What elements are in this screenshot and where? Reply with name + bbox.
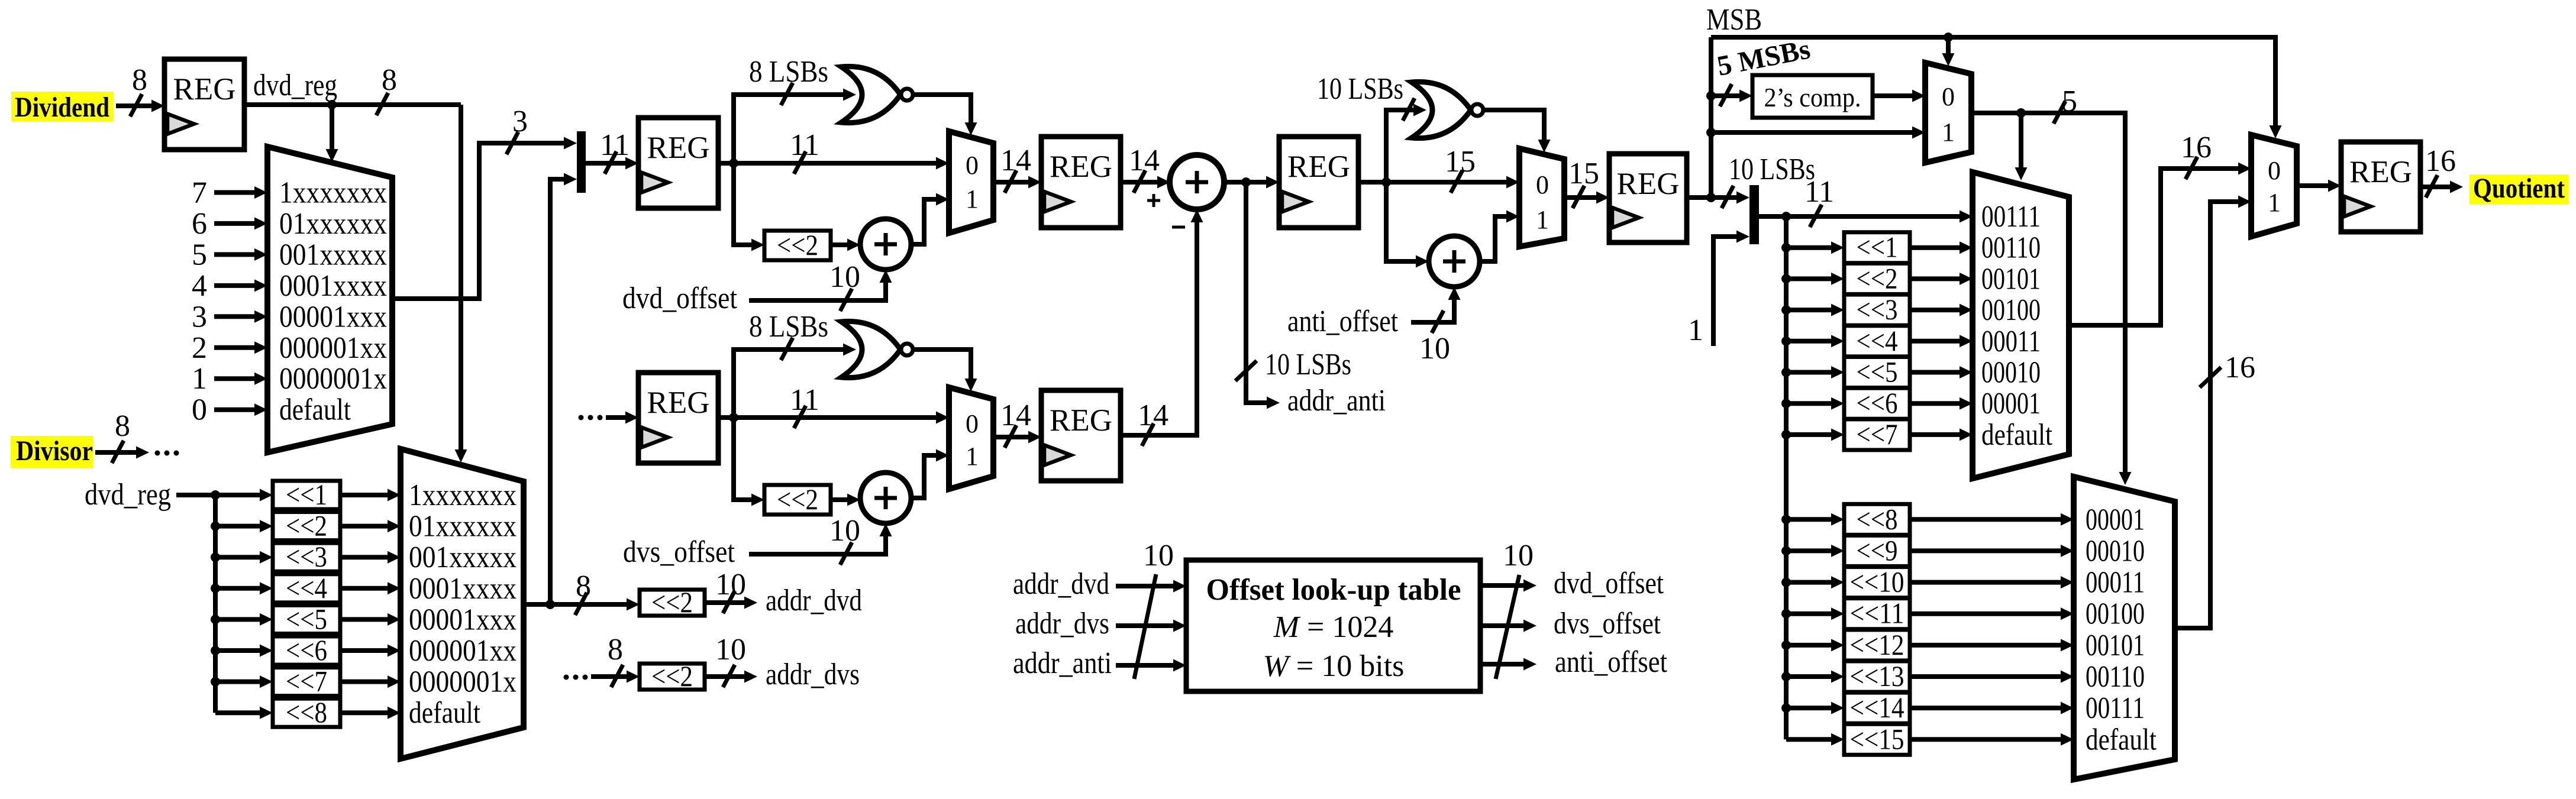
shifter &lt;&lt;2 [640,585,705,619]
svg-text:0001xxxx: 0001xxxx [279,269,387,303]
shifter &lt;&lt;4 [273,571,340,604]
wire shifter <<6 to mux M8 [1910,401,1960,406]
wire adder A3 to mux M4 input 1 [1480,216,1506,261]
svg-text:anti_offset: anti_offset [1287,305,1398,338]
svg-text:dvs_offset: dvs_offset [623,535,735,569]
wire constant 4 into mux M1 [214,283,254,288]
svg-text:REG: REG [1617,167,1680,201]
shifter &lt;&lt;2 [273,509,340,542]
wire anti_offset out of LUT [1480,662,1523,667]
wire REG8 output to Quotient [2420,185,2450,189]
wire mux M5 output to REG6 [993,435,1028,439]
svg-text:10 LSBs: 10 LSBs [1729,153,1815,186]
wire feeder to shifter <<8 (quotient) [1786,517,1831,522]
shifter &lt;&lt;13 [1844,659,1910,693]
output label Quotient [2470,173,2568,204]
svg-text:00110: 00110 [1981,231,2041,265]
svg-text:<<7: <<7 [1857,418,1898,451]
shifter &lt;&lt;14 [1844,691,1910,724]
wire shifter <<1 to mux M2 [340,493,388,497]
svg-text:0: 0 [1536,170,1549,199]
svg-text:001xxxxx: 001xxxxx [279,238,387,271]
svg-text:Quotient: Quotient [2473,173,2565,204]
bus width slash 15 (M4 out) [1573,186,1584,208]
shifter &lt;&lt;2 [1844,261,1910,295]
svg-text:1: 1 [1688,313,1703,347]
svg-text:14: 14 [1129,144,1160,177]
svg-text:<<5: <<5 [286,602,327,635]
node dvd_reg junction [327,100,337,109]
wire direct to mux M6 input 1 [1711,130,1912,135]
svg-text:default: default [1981,418,2052,452]
svg-text:1: 1 [966,442,979,471]
svg-text:0: 0 [1942,82,1955,111]
mux M6 (0/1) [1925,63,1971,163]
bus width slash 10 LSBs (addr_anti) [1235,361,1257,381]
wire shifter <<2 to mux M8 [1910,276,1960,281]
wire feeder to shifter <<14 (quotient) [1786,706,1831,710]
wire feeder to shifter <<2 (quotient) [1786,276,1831,281]
wire feeder to shifter <<5 (quotient) [1786,370,1831,375]
wire feeder to shifter <<6 (quotient) [1786,401,1831,406]
svg-text:1: 1 [1536,205,1549,234]
wire shifter <<7 to mux M2 [340,680,388,684]
wire feeder to shifter <<6 [215,648,260,653]
shifter &lt;&lt;3 [273,540,340,573]
svg-text:16: 16 [2425,144,2456,178]
svg-text:00100: 00100 [2086,597,2145,631]
wire shifter <<14 to mux M9 [1910,706,2061,710]
operand sign minus (subtractor) [1172,226,1185,229]
svg-text:dvd_reg: dvd_reg [85,478,171,512]
wire shifter to adder A1 [831,242,847,247]
svg-text:anti_offset: anti_offset [1555,645,1667,679]
svg-text:11: 11 [1805,175,1834,209]
bus width slash 10 LSBs (N3) [1403,98,1415,121]
svg-text:REG: REG [647,386,710,420]
svg-text:addr_anti: addr_anti [1013,646,1112,680]
bus width slash 8 (addr_dvs) [611,665,623,687]
wire constant 3 into mux M1 [214,314,254,319]
register R7 [1609,154,1687,242]
wire NOR N2 output to mux M5 select [913,350,971,379]
bus width slash 5 MSBs [1720,84,1732,106]
register R4 [1041,137,1121,228]
wire dvd_reg select drop into mux M1 [330,105,334,149]
wire mux M4 output to REG7 [1564,195,1596,200]
svg-text:<<2: <<2 [286,509,327,542]
input label Divisor [11,435,93,468]
wire feeder to shifter <<11 (quotient) [1786,612,1831,616]
svg-text:<<6: <<6 [286,633,327,667]
svg-text:14: 14 [1138,399,1168,432]
shifter &lt;&lt;8 [1844,502,1910,535]
node feeder junction <<11 (quotient) [1781,609,1791,619]
svg-text:<<1: <<1 [286,478,327,511]
svg-text:00101: 00101 [2086,629,2145,662]
svg-text:default: default [2086,723,2157,756]
svg-text:8: 8 [115,409,130,443]
wire feeder to shifter <<10 (quotient) [1786,580,1831,585]
shifter &lt;&lt;3 [1844,293,1910,326]
svg-text:REG: REG [647,131,710,165]
bus width slash 10 (LUT outputs) [1496,575,1519,679]
node shift-column feed junction [211,490,220,500]
mux M9 trapezoid (lower quotient mux) [2074,477,2175,779]
wire 2s-comp to mux M6 input 0 [1873,93,1912,98]
wire REG3 out down to shifter [734,418,751,500]
wire constant 1 into mux M1 [214,376,254,381]
svg-text:REG: REG [2349,155,2412,189]
wire NOR N3 output to mux M4 select [1483,110,1544,140]
node feeder junction <<2 (quotient) [1781,274,1791,283]
svg-text:default: default [409,696,480,730]
svg-text:10 LSBs: 10 LSBs [1317,72,1403,106]
svg-text:7: 7 [192,176,207,210]
svg-text:01xxxxxx: 01xxxxxx [279,207,387,241]
svg-text:000001xx: 000001xx [279,331,387,365]
wire shifter <<7 to mux M8 [1910,432,1960,437]
svg-text:16: 16 [2225,351,2255,384]
bus width slash 11 (into REG2) [605,151,616,174]
wire shifter <<5 to mux M8 [1910,370,1960,375]
wire addr_anti drop [1246,182,1267,403]
svg-text:00101: 00101 [1981,262,2041,296]
bus merge bar B2 [1749,185,1759,244]
svg-text:<<13: <<13 [1850,659,1904,693]
wire bus merge B2 output to mux M8 [1759,214,1960,219]
bus width slash 5 (M6 out) [2054,101,2065,124]
wire REG6 out up into subtractor [1121,222,1197,435]
ellipsis before REG3 [579,415,584,420]
node B2 output junction [1781,212,1791,221]
bus width slash 10 (addr_dvs) [723,665,735,687]
bus width slash 14 (M3 out) [1005,170,1016,193]
operand sign + (subtractor) [1153,194,1155,207]
svg-text:11: 11 [790,383,819,417]
shifter &lt;&lt;12 [1844,628,1910,661]
wire constant 5 into mux M1 [214,252,254,257]
svg-text:REG: REG [1287,150,1350,184]
node feeder junction <<4 [211,584,220,593]
svg-text:1: 1 [192,362,207,396]
svg-text:10: 10 [1143,539,1174,572]
node REG3 output junction [729,413,738,422]
bus width slash 10 (dvs_offset) [840,542,852,565]
shifter &lt;&lt;8 [273,696,340,729]
wire shifter <<10 to mux M9 [1910,580,2061,585]
svg-text:<<14: <<14 [1850,691,1904,724]
wire REG2 out down to shifter [734,163,751,245]
wire dvd_offset out of LUT [1480,583,1523,588]
bus width slash 10 (addr_dvd) [723,591,735,613]
svg-text:<<8: <<8 [1857,502,1898,535]
svg-text:2’s comp.: 2’s comp. [1764,82,1861,112]
node subtractor output junction [1241,177,1251,187]
svg-text:addr_dvs: addr_dvs [766,658,860,691]
wire adder A2 to mux M5 input 1 [911,455,936,498]
svg-text:<<7: <<7 [286,665,327,698]
svg-text:<<2: <<2 [651,659,693,693]
wire shifter <<9 to mux M9 [1910,548,2061,553]
adder A3 [1429,236,1480,287]
svg-text:0: 0 [966,151,979,180]
bus width slash 11 (B2 out) [1810,205,1822,227]
bus width slash 16 (M9 out) [2200,367,2221,387]
svg-text:Offset look-up table: Offset look-up table [1206,573,1461,607]
wire into addr_dvs shifter [591,674,627,679]
adder A1 [860,219,911,270]
svg-text:5: 5 [192,238,207,271]
svg-text:11: 11 [790,128,819,162]
svg-text:001xxxxx: 001xxxxx [409,541,517,574]
wire shift-column feeder vertical [213,495,218,713]
svg-text:<<2: <<2 [777,483,818,516]
block Offset look-up table [1186,560,1480,691]
bus merge bar B1 [577,131,586,193]
svg-text:0: 0 [2268,156,2281,185]
wire shifter <<11 to mux M9 [1910,612,2061,616]
wire shifter <<4 to mux M2 [340,586,388,591]
NOR gate N2 [841,321,913,377]
svg-text:8: 8 [608,633,623,667]
wire feeder to shifter <<7 [215,680,260,684]
svg-text:0: 0 [192,393,207,427]
node feeder junction <<4 (quotient) [1781,337,1791,346]
shifter &lt;&lt;1 [273,478,340,511]
svg-text:dvd_reg: dvd_reg [253,69,337,102]
node feeder junction <<3 (quotient) [1781,305,1791,315]
mux M5 (0/1) [949,387,993,489]
svg-text:addr_dvs: addr_dvs [1015,607,1109,641]
svg-text:00111: 00111 [2086,691,2145,725]
register R6 [1041,390,1121,481]
wire shifter <<1 to mux M8 [1910,245,1960,250]
wire quotient shift feeder vertical [1784,216,1789,739]
svg-text:dvd_offset: dvd_offset [622,282,737,315]
svg-text:00001xxx: 00001xxx [279,300,387,334]
shifter &lt;&lt;2 [764,228,831,261]
shifter &lt;&lt;6 [273,633,340,667]
svg-text:<<4: <<4 [1857,324,1898,357]
ellipsis after Divisor [155,451,160,456]
bus width slash 8 LSBs (N2) [781,338,793,360]
wire into REG3 [606,415,625,420]
wire REG3 out up to NOR N2 [734,350,843,418]
svg-text:1: 1 [1942,118,1955,147]
shifter &lt;&lt;9 [1844,533,1910,567]
svg-text:2: 2 [192,331,207,365]
bus width slash 16 (Quotient) [2426,175,2438,198]
svg-text:addr_dvd: addr_dvd [766,584,862,617]
wire feeder to shifter <<4 (quotient) [1786,339,1831,344]
mux M3 (0/1) [949,131,993,233]
svg-text:8 LSBs: 8 LSBs [749,55,828,89]
wire constant 6 into mux M1 [214,221,254,226]
svg-text:3: 3 [512,105,528,138]
wire dvd_offset into adder A1 [749,283,886,300]
node feeder junction <<10 (quotient) [1781,578,1791,587]
node feeder junction <<3 [211,552,220,562]
svg-text:<<9: <<9 [1857,533,1898,567]
wire shifter <<8 to mux M9 [1910,517,2061,522]
svg-text:<<6: <<6 [1857,386,1898,419]
svg-text:00011: 00011 [1981,325,2041,358]
bus width slash 10 (LUT inputs) [1134,574,1156,679]
svg-text:8: 8 [382,63,397,97]
mux M2 divisor-normalize trapezoid placed under labels [401,449,524,759]
node feeder junction <<6 [211,646,220,655]
wire shifter <<5 to mux M2 [340,617,388,622]
wire constant 7 into mux M1 [214,190,254,195]
svg-text:01xxxxxx: 01xxxxxx [409,510,517,544]
shifter &lt;&lt;5 [1844,355,1910,389]
wire feeder to shifter <<4 [215,586,260,591]
node feeder junction <<5 [211,614,220,624]
wire anti_offset into adder A3 [1411,300,1454,322]
shifter &lt;&lt;11 [1844,597,1910,630]
svg-text:1xxxxxxx: 1xxxxxxx [409,478,517,512]
shifter &lt;&lt;15 [1844,722,1910,755]
wire adder A1 to mux M3 input 1 [911,199,936,244]
wire mux M8 output to mux M7 input 0 [2069,169,2238,325]
input label Dividend [11,92,114,123]
bus width slash 16 (M8 out) [2186,157,2197,179]
node mux M6 input-1 branch junction [1706,128,1716,137]
bus width slash 14 (REG4 out) [1134,170,1145,193]
svg-text:6: 6 [192,207,207,241]
register R2 [638,118,718,208]
svg-text:<<3: <<3 [1857,293,1898,326]
wire divisor index riser to bus merge [550,179,564,604]
svg-text:00001xxx: 00001xxx [409,603,517,636]
node feeder junction <<14 (quotient) [1781,703,1791,713]
wire feeder to shifter <<3 (quotient) [1786,308,1831,312]
svg-text:15: 15 [1568,157,1599,190]
node 5 MSBs branch junction [1706,91,1716,101]
wire to addr_dvd [705,600,744,605]
bus width slash 10 (anti_offset) [1432,310,1444,333]
wire REG5 out up to NOR N3 [1386,110,1413,182]
svg-text:<<8: <<8 [286,696,327,729]
svg-text:10: 10 [1419,332,1450,365]
node feeder junction <<2 [211,522,220,531]
wire feeder to shifter <<1 (quotient) [1786,245,1831,250]
shifter &lt;&lt;7 [1844,418,1910,451]
wire Divisor stub [95,450,136,455]
bus width slash 10 (dvd_offset) [840,289,852,311]
svg-text:00111: 00111 [1981,200,2041,234]
node feeder junction <<5 (quotient) [1781,368,1791,377]
wire dvd_reg select drop into mux M2 [459,105,463,449]
svg-text:<<2: <<2 [1857,261,1898,295]
wire MSB riser [1709,37,1713,198]
wire select drop into mux M8 [2019,113,2023,167]
node REG7 output junction [1706,193,1716,202]
svg-text:00110: 00110 [2086,660,2145,694]
wire mux M6 output (5-bit) [1971,113,2125,472]
node M6 output junction [2016,108,2026,118]
node feeder junction <<12 (quotient) [1781,641,1791,650]
wire REG7 output to bus merge B2 [1687,195,1736,200]
svg-text:<<2: <<2 [651,585,693,619]
constant 1 into bus merge B2 [1713,237,1736,346]
wire REG5 out down to adder A3 [1386,182,1416,261]
svg-text:W = 10 bits: W = 10 bits [1263,649,1405,683]
bus width slash 8 (addr_dvd path) [575,593,587,615]
wire shifter <<12 to mux M9 [1910,643,2061,648]
wire feeder to shifter <<12 (quotient) [1786,643,1831,648]
svg-text:3: 3 [192,300,207,334]
svg-text:addr_anti: addr_anti [1287,384,1386,418]
node feeder junction <<1 (quotient) [1781,243,1791,253]
wire Dividend to REG1 [116,103,151,108]
register R3 [638,373,718,463]
wire REG4 to subtractor [1121,180,1157,185]
node feeder junction <<6 (quotient) [1781,399,1791,408]
svg-text:<<10: <<10 [1850,565,1904,599]
svg-text:REG: REG [173,72,236,106]
wire dvd_reg [244,102,461,107]
wire REG3 output to mux M5 input 0 [718,415,936,420]
wire shifter <<8 to mux M2 [340,710,388,715]
svg-text:1: 1 [2268,188,2281,217]
svg-text:000001xx: 000001xx [409,634,517,668]
wire shifter <<6 to mux M2 [340,648,388,653]
svg-text:00001: 00001 [2086,503,2145,536]
svg-text:0: 0 [966,409,979,438]
wire subtractor out to REG5 [1224,180,1266,185]
svg-text:dvs_offset: dvs_offset [1554,607,1661,641]
block 2s complement [1752,75,1873,118]
svg-text:5: 5 [2062,85,2077,118]
node mux M2 output junction [545,600,555,609]
wire bar B1 to REG2 [586,161,625,166]
node feeder junction <<7 [211,677,220,687]
wire shifter <<15 to mux M9 [1910,737,2061,742]
svg-text:10: 10 [829,260,860,294]
svg-text:10: 10 [829,514,860,548]
svg-text:00011: 00011 [2086,566,2145,600]
mux M1 priority encoder trapezoid [267,147,392,452]
shifter &lt;&lt;5 [273,602,340,635]
node feeder junction <<13 (quotient) [1781,672,1791,681]
bus width slash 3 [506,132,518,154]
svg-text:00010: 00010 [2086,534,2145,568]
wire mux M9 output to mux M7 input 1 [2175,202,2238,628]
svg-text:<<3: <<3 [286,540,327,573]
wire addr_dvs into LUT [1116,623,1173,628]
svg-text:14: 14 [1000,399,1031,432]
node feeder junction <<7 (quotient) [1781,430,1791,439]
svg-text:8: 8 [132,63,147,97]
wire MSB down to mux M6 select [1946,37,1951,53]
svg-text:00100: 00100 [1981,293,2041,327]
shifter &lt;&lt;7 [273,665,340,698]
bus width slash 15 (REG5 out) [1451,170,1463,193]
bus width slash 10 LSBs (into B2) [1722,186,1734,208]
shifter &lt;&lt;6 [1844,386,1910,419]
mux M8 trapezoid (upper quotient mux) [1973,172,2069,478]
shifter &lt;&lt;10 [1844,565,1910,599]
wire shifter to adder A2 [831,497,847,502]
wire dvs_offset out of LUT [1480,623,1523,628]
wire constant 2 into mux M1 [214,345,254,350]
svg-text:<<12: <<12 [1850,628,1904,661]
bus width slash 8 LSBs (N1) [781,83,793,105]
svg-text:MSB: MSB [1706,3,1762,37]
svg-text:<<2: <<2 [777,228,818,261]
